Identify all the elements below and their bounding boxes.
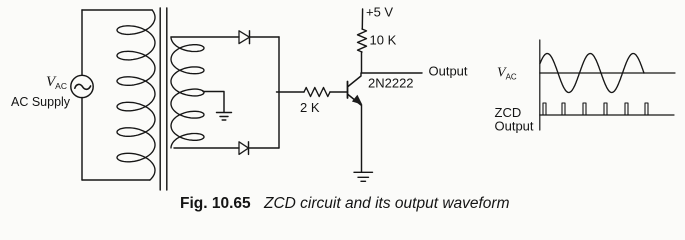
wire: primary left upper (81, 10, 83, 75)
AC source V_AC circle (71, 75, 93, 97)
ZCD pulse 5 (625, 103, 628, 115)
svg-text:Fig. 10.65: Fig. 10.65 (180, 195, 251, 212)
ZCD pulse 2 (562, 103, 565, 115)
wire: 2K to base (330, 91, 348, 93)
diode D1 cathode bar (249, 31, 251, 44)
resistor 2K zigzag (304, 88, 330, 97)
diode D1 triangle (239, 31, 250, 44)
wire: 10K to +5V (361, 9, 363, 29)
wire: secondary bottom to diode D2 (174, 147, 239, 149)
svg-text:2 K: 2 K (300, 100, 320, 115)
svg-text:ZCD circuit and its output wav: ZCD circuit and its output waveform (263, 195, 510, 212)
wire: D1 to junction (250, 36, 279, 38)
svg-text:Output: Output (495, 119, 534, 134)
transistor Q1 emitter arrow (352, 95, 362, 105)
diode D2 cathode bar (248, 142, 250, 155)
waveform sine axis (540, 72, 675, 74)
transformer core line 2 (166, 8, 168, 190)
svg-text:Output: Output (429, 64, 468, 79)
transistor Q1 collector lead (348, 73, 361, 87)
transformer core line 1 (159, 8, 161, 190)
resistor 10K zigzag (358, 29, 367, 52)
waveform V_AC sine (540, 54, 644, 93)
transistor Q1 emitter lead (348, 95, 361, 106)
wire: primary bottom (82, 179, 150, 181)
wire: primary top (82, 9, 152, 11)
transformer primary winding (117, 10, 155, 180)
ground (emitter) (354, 172, 373, 181)
wire: collector up to 10K (361, 52, 363, 73)
ZCD pulse 4 (604, 103, 607, 115)
wire: junction to 2K (277, 91, 305, 93)
ZCD pulse 1 (543, 103, 546, 115)
wire: secondary top to diode D1 (171, 36, 239, 38)
wire: primary left lower (81, 98, 83, 181)
transistor Q1 base bar (347, 82, 349, 99)
wire: D2 to junction (249, 147, 279, 149)
wire: diode junction vertical (278, 37, 280, 148)
ZCD output baseline (540, 114, 674, 116)
ZCD pulse 3 (583, 103, 586, 115)
svg-text:VAC: VAC (46, 74, 67, 91)
wire: center tap (203, 92, 224, 113)
svg-text:VAC: VAC (497, 66, 517, 82)
waveform vertical axis (539, 40, 541, 130)
svg-text:10 K: 10 K (370, 33, 397, 48)
transformer secondary winding (171, 37, 204, 148)
ground (center tap) (217, 113, 232, 121)
AC source sine symbol (75, 84, 91, 89)
ZCD pulse 6 (645, 103, 648, 115)
svg-text:AC Supply: AC Supply (11, 95, 71, 109)
wire: output (362, 72, 423, 74)
svg-text:2N2222: 2N2222 (368, 76, 414, 91)
diode D2 triangle (239, 142, 249, 155)
svg-text:+5 V: +5 V (366, 5, 393, 20)
wire: emitter down (361, 105, 363, 172)
